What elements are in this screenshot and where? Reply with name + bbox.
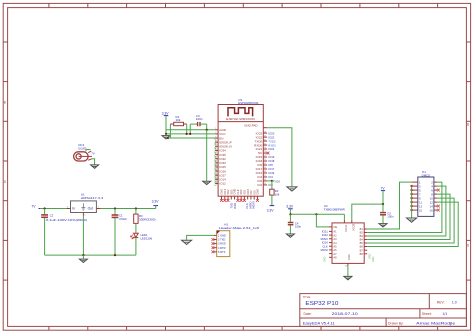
wire DC1 pin3 to 7V — [86, 150, 91, 152]
label C5 — [387, 212, 394, 219]
wire IO0 label stub — [272, 180, 275, 182]
svg-text:A4: A4 — [333, 241, 337, 245]
wire LED1 bottom — [135, 238, 137, 256]
ground GND PAD — [287, 187, 297, 191]
wire P1 odd pins to ground — [410, 185, 412, 218]
svg-text:3.3V: 3.3V — [267, 209, 275, 213]
ground P1 — [407, 218, 417, 222]
wire U1 Out to 3.3V — [101, 208, 156, 210]
wire EN row C — [168, 137, 215, 139]
wire R1 right lead — [186, 124, 188, 134]
wire VCCA rail — [290, 213, 344, 215]
svg-text:Drawn By:: Drawn By: — [388, 321, 404, 325]
svg-text:A1: A1 — [333, 230, 337, 234]
svg-text:RXD: RXD — [233, 203, 237, 209]
wire GND PAD to ground — [267, 128, 292, 187]
junction R1-VCC — [186, 133, 188, 135]
svg-text:B4: B4 — [360, 238, 364, 242]
pin VCCA U2 — [343, 214, 345, 223]
svg-text:16: 16 — [430, 208, 434, 212]
junction rail U1 — [82, 254, 84, 256]
svg-text:B2: B2 — [360, 231, 364, 235]
title value ESP32 P10 — [305, 301, 338, 307]
svg-text:VCCA: VCCA — [344, 225, 348, 232]
wire H1 pin1 to ground — [187, 235, 214, 239]
svg-text:2 TXD: 2 TXD — [218, 238, 225, 242]
net flag 3.3V regulator — [152, 200, 160, 209]
svg-text:Header-Male-2.54_1x5: Header-Male-2.54_1x5 — [219, 226, 259, 230]
svg-text:IO21: IO21 — [268, 147, 275, 151]
svg-text:IO2: IO2 — [257, 183, 262, 187]
svg-text:GND: GND — [372, 256, 375, 262]
net labels U2 B7 B8 — [368, 253, 374, 262]
svg-text:Date:: Date: — [304, 312, 312, 316]
svg-text:100n: 100n — [295, 225, 302, 229]
label U2 — [324, 204, 346, 211]
wire B4 to P1 pin8 — [367, 194, 450, 239]
svg-text:MOSI: MOSI — [321, 248, 328, 252]
wire C5 top — [382, 204, 384, 212]
rev label — [437, 301, 457, 305]
svg-text:TITLE:: TITLE: — [303, 295, 311, 299]
svg-text:100n: 100n — [196, 117, 203, 121]
junction VCCA OE — [315, 213, 317, 215]
junction 7V C5 — [382, 203, 384, 205]
title label — [303, 295, 311, 299]
svg-text:B6: B6 — [360, 245, 364, 249]
junction 3.3V-VCC — [165, 133, 167, 135]
pin 3 U1 In — [67, 206, 71, 208]
capacitor C1 — [112, 215, 119, 217]
capacitor C5 — [380, 213, 386, 215]
module U3 bottom pins — [220, 188, 260, 201]
junction VCCA C4 — [289, 213, 291, 215]
pin 2 U1 Out — [96, 206, 100, 208]
junction at C2 — [44, 207, 46, 209]
net labels U3 right — [268, 131, 276, 187]
connector DC1 label — [78, 143, 87, 150]
module U3 right pins — [254, 128, 269, 187]
ground below GND drop — [203, 181, 211, 184]
svg-text:A7: A7 — [333, 252, 337, 256]
wire B6 to P1 pin12 — [367, 202, 458, 246]
svg-text:B5: B5 — [360, 241, 364, 245]
ic U2 right pins — [360, 227, 368, 256]
svg-text:B1: B1 — [360, 227, 364, 231]
wire 3.3V stem — [165, 116, 167, 134]
net label IO0 — [275, 179, 280, 183]
net flag 7V — [31, 205, 40, 209]
pin GND U2 — [345, 263, 348, 267]
svg-text:B: B — [467, 123, 469, 127]
svg-text:470uF: 470uF — [119, 217, 127, 221]
net labels U2 A-side — [321, 230, 329, 263]
svg-text:ESP32-WROOM: ESP32-WROOM — [226, 117, 255, 121]
label U1 — [81, 192, 104, 199]
svg-text:10k: 10k — [176, 118, 181, 122]
svg-text:3.3V: 3.3V — [286, 205, 294, 209]
ground H1 — [182, 240, 192, 244]
sheet label — [422, 312, 448, 316]
wire C2 bottom — [44, 218, 46, 255]
junction C3-VCC — [189, 133, 191, 135]
wire U2 GND down — [347, 266, 349, 276]
label LED1 — [141, 233, 153, 240]
wire C5 bottom — [382, 215, 384, 223]
wire VCCB to 7V — [352, 204, 383, 220]
junction at C1 — [114, 207, 116, 209]
wire GND row A — [166, 129, 215, 131]
drawnby label — [388, 321, 455, 325]
wire C3 right lead — [200, 124, 207, 130]
wire 3.3V stem U2 — [289, 209, 291, 215]
svg-text:GND: GND — [256, 189, 260, 195]
svg-text:GND: GND — [347, 254, 351, 260]
wire R3 to LED1 — [135, 223, 137, 233]
svg-text:AMS1117-3.3: AMS1117-3.3 — [81, 196, 104, 200]
label C2 — [50, 214, 54, 218]
ic U2 left pins — [329, 225, 337, 259]
module U3 left pins — [213, 128, 231, 186]
svg-text:100n: 100n — [387, 215, 394, 219]
svg-text:1/1: 1/1 — [443, 312, 448, 316]
wire R3 top — [135, 209, 137, 215]
svg-text:EasyEDA V5.4.11: EasyEDA V5.4.11 — [303, 321, 335, 325]
date label — [304, 312, 358, 316]
capacitor C3 — [198, 122, 200, 126]
net flag 3.3V ESP32 — [162, 111, 170, 115]
ground ESP32 left — [162, 134, 170, 139]
svg-text:10k: 10k — [275, 192, 280, 196]
svg-text:3.3V: 3.3V — [152, 200, 160, 204]
wire U1 GND down — [82, 216, 84, 255]
svg-text:ESP32 P10: ESP32 P10 — [305, 301, 338, 307]
wire GND drop — [206, 130, 208, 181]
svg-text:Out: Out — [88, 207, 94, 211]
svg-text:7V: 7V — [91, 151, 95, 155]
junction rail C1 — [114, 254, 116, 256]
svg-text:0.1uF-100V-10%(0603): 0.1uF-100V-10%(0603) — [46, 218, 87, 222]
svg-text:15: 15 — [419, 208, 423, 212]
svg-text:B3: B3 — [360, 234, 364, 238]
svg-text:A5: A5 — [333, 244, 337, 248]
capacitor C4 — [288, 223, 294, 225]
svg-text:IO4: IO4 — [268, 175, 273, 179]
wire C3 left lead — [190, 124, 197, 134]
net flag 3.3V U2 — [286, 205, 294, 209]
svg-text:MOSI: MOSI — [252, 201, 256, 208]
title block grid — [300, 294, 467, 327]
svg-text:B7: B7 — [360, 248, 364, 252]
label R3 — [139, 214, 156, 221]
svg-text:5 RTS: 5 RTS — [218, 250, 226, 254]
svg-text:1 GND: 1 GND — [218, 234, 226, 238]
connector DC1 barrel jack — [74, 151, 92, 161]
svg-text:A2: A2 — [333, 233, 337, 237]
ground C5 — [379, 224, 387, 227]
svg-text:B: B — [4, 101, 6, 105]
label C2 value — [46, 218, 87, 222]
ground regulator rail — [79, 255, 87, 262]
net labels U3 bottom — [230, 201, 256, 209]
svg-text:IO2: IO2 — [268, 183, 273, 187]
label R1 — [176, 115, 181, 122]
svg-text:GND: GND — [324, 256, 327, 262]
svg-text:REV:: REV: — [437, 301, 445, 305]
module U3 ESP32-WROOM body — [218, 105, 263, 197]
svg-text:A6: A6 — [333, 248, 337, 252]
svg-text:VCCB: VCCB — [352, 224, 356, 231]
wire C1 top — [114, 209, 116, 215]
ground C4 — [286, 234, 294, 237]
label P1 — [422, 170, 431, 177]
label C1 — [119, 214, 127, 221]
junction C3-GND — [206, 129, 208, 131]
svg-text:1.0: 1.0 — [452, 301, 457, 305]
wire B1 to P1 pin1 — [367, 182, 411, 229]
junction IO0 — [271, 180, 273, 182]
wire VCC row B — [166, 133, 215, 135]
wire IO0 to R2 — [271, 181, 273, 189]
regulator U1 AMS1117-3.3 — [71, 201, 97, 213]
svg-text:B8: B8 — [360, 252, 364, 256]
label C3 — [196, 114, 203, 121]
svg-text:330R(3300): 330R(3300) — [139, 217, 156, 221]
svg-text:3.3V: 3.3V — [162, 111, 170, 115]
svg-text:A3: A3 — [333, 237, 337, 241]
wire ground rail — [45, 254, 136, 256]
svg-text:4 DTR: 4 DTR — [218, 246, 226, 250]
easyeda label — [303, 321, 335, 325]
junction at R3 — [135, 207, 137, 209]
wire C2 top — [44, 209, 46, 215]
svg-text:Sheet:: Sheet: — [422, 312, 432, 316]
resistor R2 — [270, 189, 274, 195]
wire R1 left lead — [168, 124, 170, 138]
wire B3 to P1 pin4 — [367, 186, 446, 236]
label C4 — [295, 222, 302, 229]
nc P1 pin14 — [437, 205, 440, 208]
svg-text:IO0: IO0 — [275, 179, 280, 183]
svg-text:TXB0108EPWR: TXB0108EPWR — [324, 207, 346, 211]
ic U2 TXB0108 body — [332, 223, 364, 264]
wire OE branch — [316, 214, 329, 227]
wire B2 to P1 pin2 — [367, 182, 442, 232]
svg-text:IO12: IO12 — [219, 182, 226, 186]
net flag 7V U2 — [381, 186, 386, 204]
ground at DC1 — [91, 165, 99, 168]
resistor R1 — [170, 122, 186, 125]
svg-text:3 RXD: 3 RXD — [218, 242, 226, 246]
wire C1 bottom — [114, 218, 116, 255]
header H1 — [212, 231, 230, 257]
svg-text:OE: OE — [333, 225, 337, 229]
svg-text:C2: C2 — [50, 214, 54, 218]
label R2 — [275, 189, 280, 196]
svg-text:7V: 7V — [31, 205, 36, 209]
svg-text:GND PAD: GND PAD — [244, 123, 258, 127]
svg-text:A8: A8 — [333, 256, 337, 260]
svg-text:IO12: IO12 — [213, 180, 217, 186]
wire 7V to U1 In — [40, 208, 66, 210]
pin VCCB U2 — [351, 220, 353, 223]
svg-text:In: In — [72, 207, 75, 211]
ground U2 — [344, 276, 352, 279]
nc P1 pin16 — [437, 209, 440, 212]
capacitor C2 — [41, 215, 48, 217]
label H1 — [219, 223, 259, 230]
junction EN-R1 — [167, 137, 169, 139]
wire R2 to 3.3V — [271, 195, 273, 206]
wire B5 to P1 pin10 — [367, 198, 454, 243]
connector P1 DMD — [412, 177, 437, 216]
LED LED1 — [131, 233, 139, 239]
wire C4 top — [289, 214, 291, 222]
svg-text:2018-07-10: 2018-07-10 — [332, 312, 358, 316]
nc P1 pin6 — [437, 189, 440, 192]
pin 1 U1 GND — [83, 213, 86, 217]
net label 7V at DC1 — [91, 151, 95, 155]
wire IO0 node — [267, 180, 272, 182]
label U3 — [238, 98, 258, 105]
net flag 3.3V below R2 — [267, 206, 275, 213]
svg-text:LED1206: LED1206 — [141, 236, 153, 240]
resistor R3 — [134, 214, 138, 223]
wire C4 bottom — [289, 225, 291, 233]
wire DC1 sleeve to ground — [92, 159, 95, 165]
svg-text:Arnas MasRodjie: Arnas MasRodjie — [416, 321, 455, 325]
